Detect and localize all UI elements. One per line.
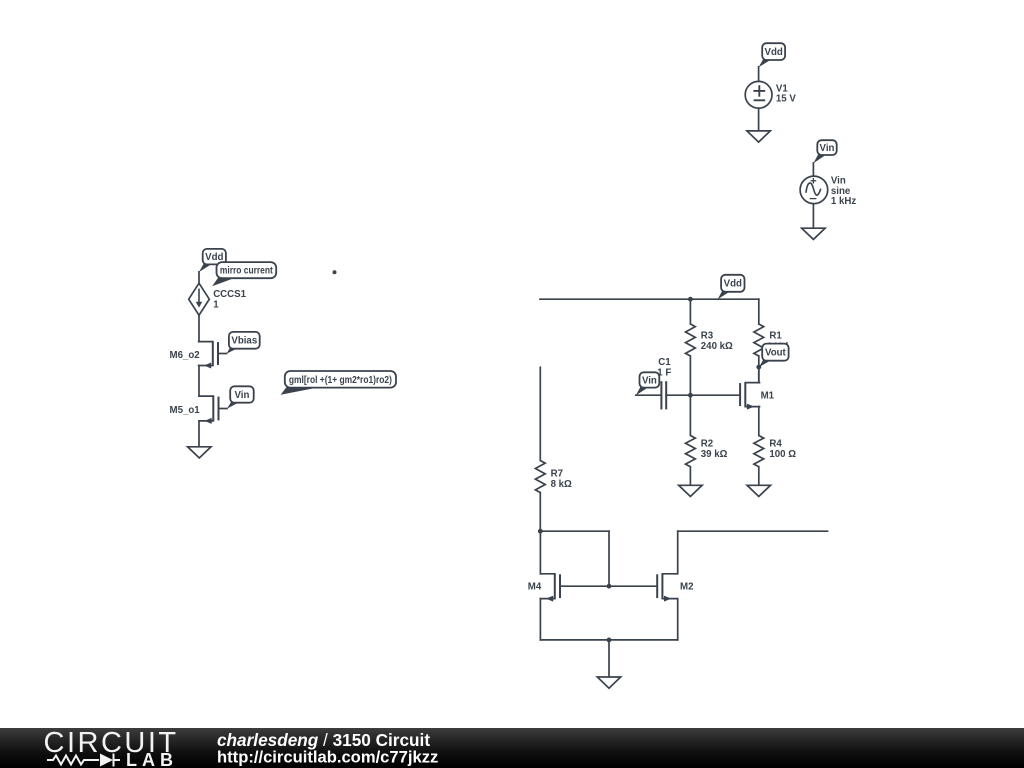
footer bar [0,728,1024,768]
svg-text:Vin: Vin [642,375,657,386]
resistor R4 [754,436,764,467]
svg-text:1 kHz: 1 kHz [831,196,856,207]
callout gml[rol +(1+ gm2*ro1)ro2) [281,371,396,395]
wire gate drop [608,531,610,586]
junction dot Vout [756,365,761,370]
resistor R1 [754,324,764,356]
label Vin source value [831,176,856,208]
ground under Vin source [802,228,825,239]
net flag Vdd (rail) [718,275,745,299]
svg-text:240 kΩ: 240 kΩ [701,341,733,352]
net flag Vin (source) [813,140,836,163]
wire M2 drain rail right [678,530,828,532]
svg-text:1: 1 [213,299,219,310]
svg-text:M6_o2: M6_o2 [170,350,200,361]
wire Vin top [812,163,814,176]
ground under M5_o1 [188,447,211,458]
svg-text:M5_o1: M5_o1 [170,405,201,416]
ground under diff pair [597,677,620,688]
net flag Vin (C1) [636,372,660,395]
label R7 value [551,469,572,490]
wire node to gate drop [540,530,609,532]
svg-text:Vbias: Vbias [231,336,257,347]
resistor R3 [686,324,696,356]
svg-text:M2: M2 [680,582,693,593]
label R3 value [701,331,733,352]
wire M2 drain up [677,531,679,574]
wire tail to ground [608,640,610,677]
svg-text:39 kΩ: 39 kΩ [701,449,728,460]
resistor R7 [535,461,545,493]
transistor M4 [540,574,560,602]
wire CCCS1 to M6_o2 drain [198,315,200,341]
svg-text:http://circuitlab.com/c77jkzz: http://circuitlab.com/c77jkzz [217,747,438,766]
junction dot gate bus [607,584,612,589]
svg-text:Vout: Vout [765,348,787,359]
wire M1 source to R4 [758,407,760,436]
svg-text:8 kΩ: 8 kΩ [551,479,572,490]
label CCCS1 value [213,289,246,310]
wire M6_o2 gate lead [218,353,227,355]
callout mirro current [212,262,276,286]
resistor R2 [686,436,696,467]
svg-text:Vin: Vin [234,390,249,401]
label R1 value (hidden) [767,342,799,353]
svg-text:100 Ω: 100 Ω [769,449,796,460]
svg-text:M4: M4 [528,582,542,593]
label R4 value [769,439,796,460]
svg-text:Vdd: Vdd [724,279,742,290]
ground under V1 [747,131,770,142]
label V1 value [776,84,796,105]
wire gate node to R2 [689,395,691,435]
junction dot gate node [688,393,693,398]
current source CCCS1 [189,283,210,315]
junction dot R7 node [538,529,543,534]
net flag Vin (M5_o1) [227,386,254,408]
CircuitLab logo [0,728,1024,768]
wire Vdd rail [540,298,759,300]
wire rail corner to R1 [758,299,760,324]
transistor M6_o2 [199,342,218,369]
wire M5_o1 source to ground [198,421,200,447]
svg-text:Vdd: Vdd [765,47,783,58]
svg-text:15 V: 15 V [776,94,796,105]
svg-text:Vin: Vin [820,143,835,154]
wire Vdd to CCCS1 [198,272,200,283]
wire R3 to gate node [689,356,691,395]
wire R7 to node [539,493,541,532]
svg-text:1 F: 1 F [657,367,671,378]
transistor M1 [740,383,759,410]
net flag Vout [759,344,789,368]
wire M4 drain up [539,531,541,574]
junction dot tail [607,638,612,643]
wire V1 top [758,67,760,82]
wire M4 source down [539,599,541,640]
net flag Vbias [226,332,259,354]
svg-text:C1: C1 [658,357,671,368]
label R2 value [701,439,728,460]
wire tail bus [540,639,677,641]
svg-text:M1: M1 [761,391,775,402]
label C1 value [657,357,671,379]
wire M6_o2 source to M5_o1 drain [198,366,200,397]
stray junction dot [333,270,337,274]
svg-text:gml[rol +(1+ gm2*ro1)ro2): gml[rol +(1+ gm2*ro1)ro2) [289,375,392,386]
wire C1 to M1 gate [666,394,740,396]
wire M4-M2 gate bus [560,585,657,587]
wire V1 bottom [758,108,760,131]
junction dot rail/R3 [688,297,693,302]
ground under R2 [679,485,702,496]
wire Vin bottom [812,204,814,229]
voltage source V1 [745,81,772,108]
wire M5_o1 gate lead [219,408,228,410]
logo resistor-diode symbol [47,753,120,766]
wire rail to R3 [689,299,691,324]
wire Vin flag to C1 [636,394,661,396]
ground under R4 [747,485,770,496]
transistor M5_o1 [199,396,218,424]
voltage source Vin sine [800,176,828,204]
wire R4 to ground [758,467,760,486]
wire R2 to ground [689,467,691,486]
wire M2 source down [677,599,679,640]
svg-text:LAB: LAB [126,750,178,768]
wire R1 to Vout node [758,356,760,383]
wire M1 drain up [758,367,760,383]
net flag Vdd (left) [199,249,226,272]
svg-text:mirro current: mirro current [220,266,274,277]
capacitor C1 [661,381,666,409]
transistor M2 [657,574,677,602]
wire R7 top [539,367,541,460]
net flag Vdd (V1) [759,43,786,67]
svg-text:R1: R1 [769,331,782,342]
